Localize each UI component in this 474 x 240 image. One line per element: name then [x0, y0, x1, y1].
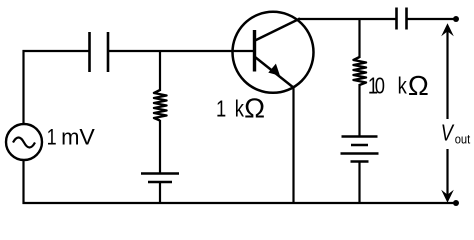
wire battery to rail	[358, 162, 360, 205]
wire right branch upper	[358, 19, 360, 58]
resistor R1 (base, coil style)	[154, 90, 167, 121]
label 1 mV	[47, 124, 95, 149]
wire left vertical lower	[22, 161, 24, 205]
Vout arrow lower	[446, 149, 448, 195]
svg-text:k: k	[398, 74, 408, 99]
transistor Q1 collector line	[255, 19, 300, 41]
wire C2 to output node	[407, 18, 456, 20]
battery cell B1	[141, 174, 179, 183]
transistor Q1 emitter line	[255, 57, 294, 88]
wire collector horizontal	[298, 18, 396, 20]
battery B2	[341, 137, 379, 162]
wire middle branch upper	[159, 51, 161, 91]
resistor R2 (10 k, coil style)	[354, 57, 367, 85]
svg-text:m: m	[61, 124, 79, 149]
svg-text:V: V	[441, 120, 455, 146]
svg-text:1: 1	[47, 126, 57, 150]
svg-text:1: 1	[216, 96, 226, 121]
wire emitter vertical	[292, 87, 294, 204]
label 10 k	[368, 74, 407, 99]
node dot output top	[453, 16, 459, 22]
svg-text:k: k	[235, 96, 245, 121]
svg-text:V: V	[79, 125, 94, 149]
source V1 (1 mV)	[6, 124, 42, 160]
label 1 k	[216, 96, 245, 121]
transistor Q1 base bar	[253, 30, 256, 72]
wire top-left horizontal	[23, 50, 90, 52]
wire cell to rail	[159, 182, 161, 204]
capacitor C2	[397, 8, 407, 30]
capacitor C1	[90, 32, 109, 72]
wire C1 to base	[108, 50, 254, 52]
svg-text:Ω: Ω	[408, 70, 429, 101]
node dot output bottom	[453, 200, 459, 206]
Vout arrow upper	[446, 31, 448, 119]
wire R2 to battery	[358, 84, 360, 137]
svg-text:0: 0	[375, 74, 385, 99]
svg-text:Ω: Ω	[244, 93, 265, 124]
svg-text:out: out	[455, 132, 471, 147]
transistor Q1 circle	[233, 12, 314, 93]
wire left vertical upper	[22, 50, 24, 124]
wire bottom rail	[23, 202, 457, 204]
transistor Q1 emitter arrow	[268, 64, 280, 76]
wire R1 to cell	[159, 120, 161, 173]
